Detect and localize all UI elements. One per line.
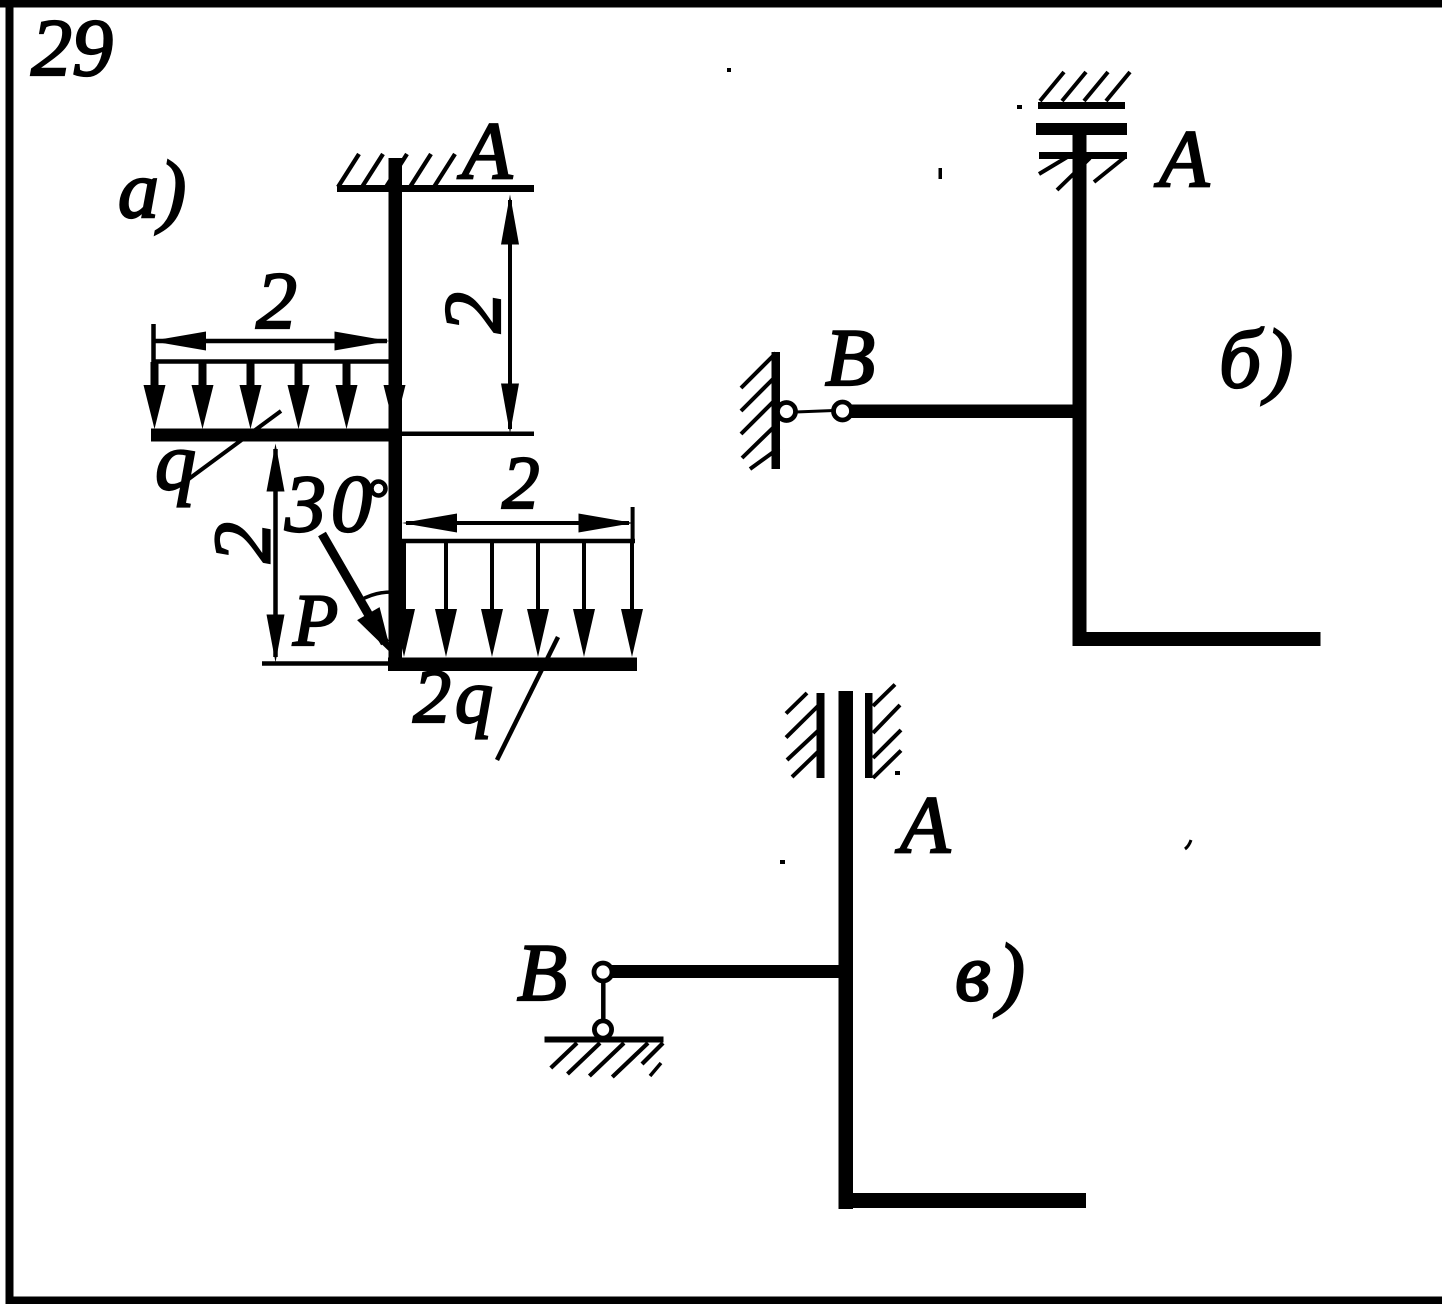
svg-text:A: A	[1154, 113, 1210, 204]
svg-text:в): в)	[955, 927, 1032, 1018]
svg-text:A: A	[895, 779, 951, 870]
svg-text:2q: 2q	[413, 655, 497, 739]
svg-text:P: P	[292, 580, 338, 662]
svg-text:а): а)	[118, 144, 186, 235]
svg-text:2: 2	[502, 442, 540, 525]
svg-text:q: q	[155, 416, 196, 507]
svg-text:2: 2	[256, 255, 297, 346]
svg-text:2: 2	[427, 292, 518, 333]
svg-text:B: B	[517, 927, 567, 1018]
svg-text:A: A	[457, 105, 513, 196]
svg-text:29: 29	[31, 2, 113, 93]
svg-text:б): б)	[1219, 313, 1297, 406]
svg-text:B: B	[825, 312, 875, 403]
svg-text:30: 30	[284, 458, 377, 549]
svg-text:2: 2	[197, 522, 288, 563]
